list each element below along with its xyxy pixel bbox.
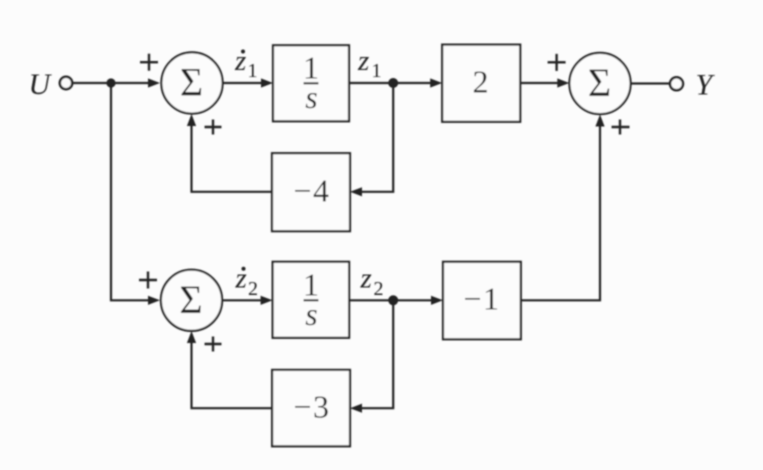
- wire U to summer S1: [73, 78, 160, 87]
- gain block 2: [442, 45, 520, 122]
- wire z2 junction down to gain block -3: [350, 300, 393, 413]
- wire z1 junction down to gain block -4: [350, 83, 393, 196]
- svg-text:z: z: [360, 263, 372, 295]
- input terminal circle U: [60, 77, 72, 89]
- plus sign at S2 lower input: [205, 337, 222, 352]
- junction node input branch: [106, 78, 115, 87]
- plus sign at S1 upper input: [140, 54, 158, 71]
- integrator block 1/s (state z2): [273, 262, 350, 338]
- gain block -3 feedback: [272, 370, 350, 446]
- wire S1 to integrator block 1/s top: [223, 78, 273, 87]
- svg-text:2: 2: [473, 64, 489, 100]
- wire -4 output to S1 lower input: [187, 114, 272, 192]
- wire S3 to output terminal: [631, 82, 671, 84]
- svg-text:U: U: [29, 68, 53, 101]
- node label z1: [357, 45, 382, 82]
- wire -1 output up to S3 lower input: [521, 115, 605, 301]
- svg-text:−3: −3: [293, 389, 330, 425]
- summer S1 (sigma): [161, 52, 222, 113]
- svg-text:Σ: Σ: [588, 60, 611, 105]
- svg-text:2: 2: [374, 278, 384, 300]
- plus sign at S2 upper input: [139, 272, 157, 289]
- svg-text:z: z: [234, 45, 246, 77]
- wire S2 to integrator block 1/s bottom: [222, 296, 273, 305]
- plus sign at S3 lower input: [612, 120, 630, 135]
- junction node z2: [388, 295, 398, 305]
- svg-text:z: z: [357, 45, 369, 77]
- svg-text:2: 2: [248, 278, 258, 300]
- node label zdot2: [235, 262, 259, 300]
- summer S2 (sigma): [161, 270, 222, 331]
- svg-text:Σ: Σ: [179, 277, 202, 322]
- svg-text:s: s: [305, 296, 317, 332]
- svg-text:−1: −1: [463, 281, 500, 317]
- svg-text:Σ: Σ: [180, 60, 203, 105]
- node label zdot1: [234, 45, 258, 82]
- summer S3 (sigma) output summer: [569, 53, 630, 114]
- wire gain2 to summer S3: [520, 78, 569, 87]
- wire integrator1 to gain block 2: [349, 78, 442, 87]
- gain block -4 feedback: [272, 153, 350, 231]
- junction node z1: [388, 78, 398, 88]
- node label z2: [360, 263, 384, 300]
- gain block -1: [443, 262, 521, 340]
- plus sign at S1 lower input: [205, 120, 222, 135]
- wire integrator2 to gain block -1: [349, 296, 443, 305]
- svg-text:−4: −4: [293, 172, 330, 208]
- plus sign at S3 upper input: [548, 54, 566, 71]
- output terminal circle Y: [670, 77, 683, 90]
- svg-text:1: 1: [372, 60, 382, 82]
- wire -3 output to S2 lower input: [187, 331, 272, 408]
- svg-text:s: s: [305, 79, 317, 115]
- svg-text:z: z: [235, 262, 247, 294]
- node Y output label: [696, 68, 716, 101]
- node U input label: [29, 68, 53, 101]
- svg-text:1: 1: [248, 60, 258, 82]
- wire input branch down to summer S2: [111, 83, 160, 305]
- integrator block 1/s (state z1): [273, 45, 349, 121]
